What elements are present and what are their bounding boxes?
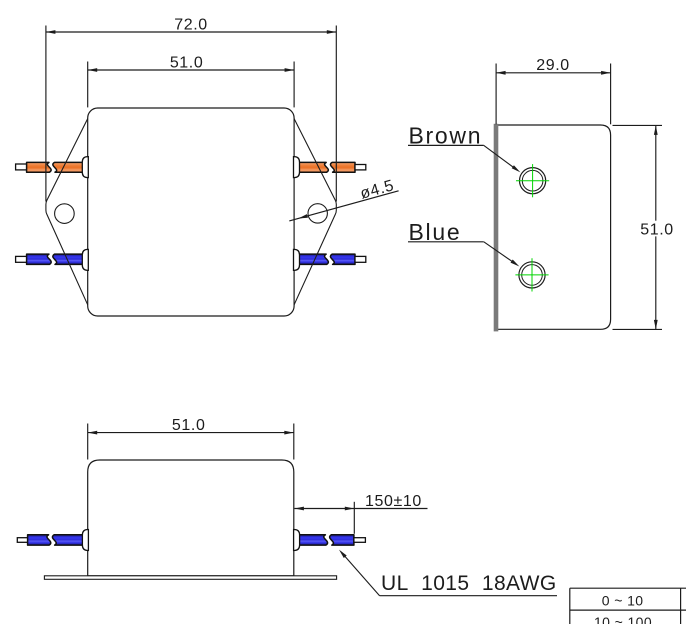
dimension 51.0 top extension left — [87, 62, 89, 108]
top view: filter body outline — [88, 108, 294, 316]
blue wire left (top view) lead — [16, 256, 28, 262]
blue wire bottom-left segment B — [52, 535, 83, 545]
svg-text:29.0: 29.0 — [536, 57, 570, 74]
label Brown arrow — [512, 165, 521, 172]
label Brown leader — [484, 145, 517, 170]
side view flange edge (gray bar) — [494, 124, 499, 332]
dimension 72.0 extension line left — [45, 26, 47, 202]
dimension 29.0 extension right — [610, 64, 612, 125]
leader arrow for hole diameter — [298, 214, 308, 218]
blue wire left segment B — [53, 254, 83, 264]
dimension 51.0 side extension top — [613, 124, 663, 126]
grommet top-left blue — [82, 249, 88, 270]
blue wire left segment A — [27, 254, 52, 264]
side view plate outline — [494, 125, 611, 329]
svg-text:51.0: 51.0 — [172, 417, 206, 434]
blue wire bottom-left segment A — [28, 535, 51, 545]
brown wire left (top view) lead — [16, 164, 28, 170]
svg-text:ø4.5: ø4.5 — [358, 177, 396, 203]
svg-text:72.0: 72.0 — [174, 17, 208, 34]
blue wire bottom-right lead — [354, 538, 366, 543]
brown wire hole inner circle — [522, 170, 543, 191]
brown wire right lead — [355, 165, 366, 170]
table column divider — [680, 588, 682, 624]
svg-text:10 ~ 100: 10 ~ 100 — [594, 614, 652, 624]
blue wire right (top view) segment A — [298, 254, 328, 264]
dimension 51.0 side line upper — [655, 125, 657, 220]
dimension 29.0 arrow left — [496, 71, 506, 75]
left flange mounting hole — [55, 204, 75, 224]
dimension 51.0 top arrow left — [88, 68, 98, 72]
dimension 29.0 line — [496, 72, 610, 74]
dimension 150±10 shelf — [354, 508, 427, 510]
right mounting flange outline — [294, 119, 336, 305]
blue wire bottom-right segment A — [299, 535, 328, 545]
table left border — [569, 588, 571, 624]
blue hole green crosshair — [515, 274, 548, 276]
dimension 51.0 bottom arrow right — [284, 431, 294, 435]
svg-text:Brown: Brown — [409, 122, 483, 148]
label Blue arrow — [511, 260, 520, 267]
dimension 29.0 extension left — [495, 64, 497, 125]
dimension 150±10 arrow left — [294, 507, 304, 511]
blue wire hole outer circle — [519, 262, 545, 288]
blue wire hole inner circle — [522, 265, 543, 286]
dimension 72.0 line — [46, 31, 336, 33]
dimension 72.0 extension line right — [335, 26, 337, 202]
dimension 150±10 line — [294, 508, 354, 510]
wire spec leader arrow — [339, 550, 347, 558]
dimension 51.0 top extension right — [293, 62, 295, 108]
blue wire bottom-right segment B — [330, 535, 354, 545]
label Brown underline — [408, 144, 484, 146]
brown wire right segment B — [330, 162, 355, 172]
dimension 51.0 bottom extension left — [87, 424, 89, 460]
leader line for hole diameter — [289, 191, 398, 221]
brown wire left segment B — [53, 162, 83, 172]
label Blue leader — [484, 242, 516, 264]
brown hole green crosshair — [516, 180, 549, 182]
left mounting flange outline — [46, 119, 88, 305]
table top border — [570, 587, 686, 589]
svg-text:0 ~ 10: 0 ~ 10 — [602, 592, 644, 608]
dimension 51.0 side arrow bottom — [654, 320, 658, 330]
brown wire hole outer circle — [520, 168, 546, 194]
wire spec leader shelf — [380, 595, 557, 597]
dimension 51.0 bottom line — [88, 432, 294, 434]
blue wire right segment B — [330, 254, 355, 264]
blue wire left (bottom view) lead — [17, 538, 28, 543]
dimension 150±10 arrow right — [345, 507, 355, 511]
brown wire right (top view) segment A — [298, 162, 328, 172]
grommet bottom-left — [82, 530, 88, 551]
bottom view base plate — [44, 576, 336, 580]
dimension 51.0 top arrow right — [285, 68, 295, 72]
svg-text:51.0: 51.0 — [170, 54, 204, 71]
dimension 72.0 arrow right — [327, 30, 337, 34]
dimension 51.0 bottom extension right — [293, 424, 295, 460]
svg-text:51.0: 51.0 — [640, 221, 674, 238]
grommet top-right blue — [294, 249, 300, 270]
dimension 51.0 top line — [88, 69, 294, 71]
right flange mounting hole — [308, 204, 327, 223]
dimension 51.0 side arrow top — [654, 125, 658, 134]
brown wire left segment A — [27, 162, 52, 172]
dimension 51.0 side line lower — [655, 236, 657, 329]
dimension 72.0 arrow left — [46, 30, 56, 34]
table row divider — [570, 609, 686, 611]
wire spec leader diagonal — [341, 552, 380, 596]
dimension 51.0 bottom arrow left — [88, 431, 98, 435]
dimension 51.0 side extension bottom — [613, 328, 663, 330]
dimension 29.0 arrow right — [601, 71, 611, 75]
grommet top-right brown — [294, 157, 300, 178]
grommet top-left brown — [82, 157, 88, 178]
dimension 150±10 extension line — [353, 502, 355, 534]
svg-text:150±10: 150±10 — [365, 493, 422, 510]
grommet bottom-right — [294, 530, 300, 551]
svg-text:UL 1015 18AWG: UL 1015 18AWG — [381, 572, 557, 595]
label Blue underline — [408, 241, 484, 243]
bottom view body outline — [88, 460, 294, 576]
blue wire right lead — [355, 256, 366, 262]
